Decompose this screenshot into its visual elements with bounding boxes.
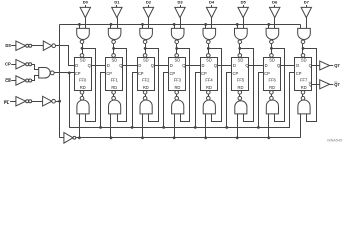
wire Q4 to D5: [217, 65, 232, 67]
wire SD branch around FF2: [146, 49, 159, 122]
wire load bus to reset NAND input: [300, 114, 302, 138]
svg-text:MNA549: MNA549: [327, 138, 342, 142]
NAND reset gate stage 7: [298, 100, 310, 114]
svg-text:FF2: FF2: [142, 78, 150, 83]
svg-text:RD: RD: [301, 85, 307, 90]
buffer D2 input (triangle): [143, 7, 153, 17]
wire PL riser vertical: [59, 24, 61, 137]
NAND reset gate stage 6 (bubble): [270, 96, 274, 100]
node top bus stage 3: [173, 23, 176, 26]
wire Q7 to output buffer: [312, 65, 320, 67]
wire load bus to set NAND input: [79, 24, 81, 28]
wire RD to reset NAND: [239, 94, 241, 96]
svg-text:CP: CP: [233, 71, 239, 76]
SD bubble FF1: [112, 54, 116, 58]
svg-text:SD: SD: [143, 58, 149, 63]
svg-text:RD: RD: [143, 85, 149, 90]
flip-flop FF5: [232, 58, 249, 91]
svg-text:CP: CP: [264, 71, 270, 76]
svg-text:CP: CP: [106, 71, 112, 76]
node load bus stage 3: [173, 136, 176, 139]
inverter CE: [16, 76, 26, 85]
wire Q3 to D4: [186, 65, 201, 67]
inverter PL bottom: [64, 133, 73, 144]
node top bus stage 6: [267, 23, 270, 26]
node SD stage 4: [207, 47, 210, 50]
NAND set gate stage 5: [235, 28, 248, 39]
wire RD to reset NAND: [271, 94, 273, 96]
svg-text:Q: Q: [309, 63, 312, 68]
flip-flop FF1: [106, 58, 123, 91]
wire D2 tick: [148, 5, 150, 7]
SD bubble FF3: [175, 54, 179, 58]
wire load bus to set NAND input: [300, 24, 302, 28]
node SD stage 7: [302, 47, 305, 50]
wire D6 tick: [274, 5, 276, 7]
wire Q2 to D3: [154, 65, 169, 67]
svg-text:FF7: FF7: [300, 78, 308, 83]
svg-text:RD: RD: [269, 85, 275, 90]
NAND reset gate stage 2 (bubble): [143, 96, 147, 100]
wire DS to inverter: [11, 45, 16, 47]
svg-text:SD: SD: [238, 58, 244, 63]
buffer D0 input (triangle): [80, 7, 90, 17]
wire SD branch around FF1: [114, 49, 127, 122]
NAND reset gate stage 5 (bubble): [238, 96, 242, 100]
svg-text:SD: SD: [111, 58, 117, 63]
wire CE to inverter: [11, 80, 16, 82]
RD bubble FF1: [112, 91, 116, 95]
wire CP riser stage 4: [196, 73, 201, 128]
buffer Q7bar output: [320, 80, 330, 89]
NAND reset gate stage 3 (bubble): [175, 96, 179, 100]
inverter CP: [16, 60, 26, 69]
wire D5 buffer to set NAND: [243, 18, 245, 29]
node load bus stage 1: [110, 136, 113, 139]
wire load bus to set NAND input: [205, 24, 207, 28]
top parallel-load bus: [60, 24, 301, 26]
wire RD to reset NAND: [208, 94, 210, 96]
wire D1 tick: [116, 5, 118, 7]
svg-text:D: D: [296, 63, 299, 68]
buffer D1 input (triangle): [112, 7, 122, 17]
wire clock to FF0 CP: [54, 72, 74, 74]
wire SD branch around FF6: [272, 49, 285, 122]
inverter PL second: [43, 96, 52, 106]
svg-text:CP: CP: [169, 71, 175, 76]
wire Q6 to D7: [280, 65, 295, 67]
wire D4 buffer to set NAND: [211, 18, 213, 29]
clock NAND gate: [39, 68, 51, 79]
NAND reset gate stage 2: [140, 100, 152, 114]
wire CP to inverter: [11, 64, 16, 66]
svg-text:FF0: FF0: [79, 78, 87, 83]
svg-text:Q: Q: [214, 63, 217, 68]
inverter DS second: [43, 41, 52, 50]
SD bubble FF5: [238, 54, 242, 58]
RD bubble FF2: [143, 91, 147, 95]
wire SD line stage 0: [82, 44, 84, 54]
svg-text:CP: CP: [5, 62, 11, 67]
wire load bus to reset NAND input: [268, 114, 270, 138]
wire SD branch around FF5: [240, 49, 254, 122]
SD bubble FF6: [270, 54, 274, 58]
flip-flop FF7: [295, 58, 312, 91]
wire load bus to set NAND input: [142, 24, 144, 28]
svg-text:D7: D7: [304, 0, 310, 5]
svg-text:Q: Q: [245, 63, 248, 68]
NAND set gate stage 3: [171, 28, 184, 39]
flip-flop FF3: [169, 58, 186, 91]
svg-text:Q7: Q7: [334, 82, 340, 87]
wire SD branch around FF4: [209, 49, 222, 122]
RD bubble FF7: [301, 91, 305, 95]
svg-text:Q: Q: [151, 63, 154, 68]
node top bus stage 1: [110, 23, 113, 26]
wire Q1 to D2: [123, 65, 138, 67]
wire D3 buffer to set NAND: [180, 18, 182, 29]
svg-text:FF5: FF5: [237, 78, 245, 83]
svg-text:FF3: FF3: [174, 78, 182, 83]
NAND reset gate stage 4: [203, 100, 215, 114]
flip-flop FF0: [75, 58, 92, 91]
load bus: [76, 137, 301, 139]
svg-text:Q: Q: [309, 82, 312, 87]
wire load bus to set NAND input: [268, 24, 270, 28]
svg-text:RD: RD: [111, 85, 117, 90]
buffer D3 input (triangle): [175, 7, 185, 17]
wire Q0 to D1: [91, 65, 106, 67]
wire riser to bottom inverter: [60, 137, 64, 139]
svg-text:D5: D5: [241, 0, 247, 5]
wire load bus to set NAND input: [174, 24, 176, 28]
wire D4 tick: [211, 5, 213, 7]
svg-text:RD: RD: [174, 85, 180, 90]
svg-text:D6: D6: [272, 0, 278, 5]
svg-text:PL: PL: [4, 100, 10, 105]
NAND set gate stage 1: [108, 28, 121, 39]
buffer D6 input (triangle): [270, 7, 280, 17]
svg-text:D: D: [170, 63, 173, 68]
NAND set gate stage 2: [140, 28, 153, 39]
node CP internal: [68, 72, 71, 75]
NAND reset gate stage 1 (bubble): [112, 96, 116, 100]
node top bus stage 2: [141, 23, 144, 26]
wire CP riser stage 7: [290, 73, 295, 128]
wire D7 tick: [306, 5, 308, 7]
svg-text:SD: SD: [206, 58, 212, 63]
wire load bus to reset NAND input: [205, 114, 207, 138]
wire CP riser stage 3: [164, 73, 169, 128]
svg-text:CE: CE: [5, 78, 11, 83]
wire load bus to reset NAND input: [237, 114, 239, 138]
node CP bus stage 2: [131, 126, 134, 129]
NAND reset gate stage 4 (bubble): [207, 96, 211, 100]
node SD stage 6: [270, 47, 273, 50]
wire load bus to reset NAND input: [110, 114, 112, 138]
node CP bus stage 3: [162, 126, 165, 129]
NAND reset gate stage 0: [77, 100, 89, 114]
RD bubble FF5: [238, 91, 242, 95]
wire D3 tick: [180, 5, 182, 7]
svg-text:D4: D4: [209, 0, 215, 5]
wire SD branch around FF0: [83, 49, 96, 122]
node SD stage 3: [175, 47, 178, 50]
wire SD line stage 5: [239, 44, 241, 54]
wire SD line stage 1: [113, 44, 115, 54]
wire D5 tick: [243, 5, 245, 7]
NAND reset gate stage 5: [235, 101, 247, 114]
wire load bus to reset NAND input: [79, 114, 81, 138]
wire SD line stage 4: [208, 44, 210, 54]
svg-text:CP: CP: [296, 71, 302, 76]
CP bus: [69, 127, 290, 129]
wire PL to inverter: [10, 101, 16, 103]
wire RD to reset NAND: [176, 94, 178, 96]
NAND set gate stage 7: [298, 28, 311, 39]
SD bubble FF7: [301, 54, 305, 58]
buffer D5 input (triangle): [238, 7, 248, 17]
wire CP inverter to clock NAND: [32, 65, 39, 70]
wire SD branch around FF7: [303, 49, 317, 122]
svg-text:Q: Q: [88, 63, 91, 68]
node top bus stage 4: [204, 23, 207, 26]
wire SD branch around FF3: [177, 49, 190, 122]
svg-text:RD: RD: [206, 85, 212, 90]
wire CP riser down to CP bus: [69, 73, 71, 128]
wire D2 buffer to set NAND: [148, 18, 150, 29]
wire RD to reset NAND: [145, 94, 147, 96]
RD bubble FF0: [80, 91, 84, 95]
svg-text:D: D: [75, 63, 78, 68]
wire PL node to riser: [56, 101, 60, 103]
svg-text:D: D: [265, 63, 268, 68]
node SD stage 2: [144, 47, 147, 50]
wire D0 buffer to set NAND: [85, 18, 87, 29]
RD bubble FF3: [175, 91, 179, 95]
flip-flop FF4: [201, 58, 218, 91]
wire CP riser stage 5: [227, 73, 232, 128]
svg-text:SD: SD: [301, 58, 307, 63]
wire RD to reset NAND: [113, 94, 115, 96]
wire load bus to set NAND input: [110, 24, 112, 28]
svg-text:FF6: FF6: [268, 78, 276, 83]
wire Q7bar out: [330, 84, 334, 86]
wire D1 buffer to set NAND: [117, 18, 119, 29]
wire load bus to set NAND input: [237, 24, 239, 28]
wire D0 tick: [85, 5, 87, 7]
wire D7 buffer to set NAND: [306, 18, 308, 29]
wire SD line stage 2: [145, 44, 147, 54]
svg-text:CP: CP: [201, 71, 207, 76]
NAND reset gate stage 1: [109, 100, 121, 114]
wire SD line stage 6: [271, 44, 273, 54]
node load bus stage 4: [204, 136, 207, 139]
NAND reset gate stage 6: [266, 100, 278, 114]
svg-text:SD: SD: [269, 58, 275, 63]
inverter PL first: [16, 97, 26, 106]
svg-text:CP: CP: [75, 71, 81, 76]
SD bubble FF4: [207, 54, 211, 58]
node top bus stage 5: [236, 23, 239, 26]
wire load bus to reset NAND input: [142, 114, 144, 138]
wire Q5 to D6: [249, 65, 264, 67]
svg-text:D: D: [202, 63, 205, 68]
wire D6 buffer to set NAND: [274, 18, 276, 29]
flip-flop FF2: [138, 58, 155, 91]
RD bubble FF6: [270, 91, 274, 95]
node load bus stage 5: [236, 136, 239, 139]
wire DS to FF0 D input: [56, 46, 75, 66]
wire RD to reset NAND: [302, 94, 304, 96]
wire CP riser stage 1: [101, 73, 106, 128]
svg-text:D3: D3: [177, 0, 183, 5]
svg-text:D2: D2: [146, 0, 152, 5]
SD bubble FF2: [143, 54, 147, 58]
wire Q7bar to output buffer: [312, 84, 320, 86]
flip-flop FF6: [264, 58, 281, 91]
buffer D7 input (triangle): [301, 7, 311, 17]
RD bubble FF4: [207, 91, 211, 95]
node top bus stage 0: [78, 23, 81, 26]
wire SD line stage 3: [176, 44, 178, 54]
buffer Q7 output: [320, 61, 330, 70]
svg-text:Q7: Q7: [334, 63, 340, 68]
NAND set gate stage 0: [77, 28, 90, 39]
wire SD line stage 7: [302, 44, 304, 54]
node PL riser: [58, 100, 61, 103]
svg-text:RD: RD: [238, 85, 244, 90]
NAND reset gate stage 0 (bubble): [80, 96, 84, 100]
NAND reset gate stage 3: [172, 100, 184, 114]
wire PL inverters: [32, 101, 43, 103]
node CP bus stage 5: [225, 126, 228, 129]
node load bus stage 0: [78, 136, 81, 139]
svg-text:FF1: FF1: [111, 78, 119, 83]
node CP bus stage 6: [257, 126, 260, 129]
node SD stage 0: [81, 47, 84, 50]
wire load bus to reset NAND input: [174, 114, 176, 138]
svg-text:SD: SD: [175, 58, 181, 63]
svg-text:D0: D0: [83, 0, 89, 5]
svg-text:D: D: [138, 63, 141, 68]
wire CE inverter to clock NAND: [32, 76, 39, 81]
svg-text:DS: DS: [5, 43, 11, 48]
wire CP riser stage 2: [133, 73, 138, 128]
node CP bus stage 1: [99, 126, 102, 129]
node SD stage 1: [112, 47, 115, 50]
node load bus stage 6: [267, 136, 270, 139]
wire RD to reset NAND: [82, 94, 84, 96]
svg-text:D: D: [233, 63, 236, 68]
wire CP riser stage 6: [259, 73, 264, 128]
node SD stage 5: [238, 47, 241, 50]
svg-text:RD: RD: [80, 85, 86, 90]
NAND reset gate stage 7 (bubble): [301, 96, 305, 100]
svg-text:CP: CP: [138, 71, 144, 76]
NAND set gate stage 4: [203, 28, 216, 39]
node load bus stage 2: [141, 136, 144, 139]
SD bubble FF0: [80, 54, 84, 58]
svg-text:D1: D1: [114, 0, 120, 5]
svg-text:Q: Q: [277, 63, 280, 68]
inverter DS first: [16, 41, 26, 50]
svg-text:D: D: [107, 63, 110, 68]
wire DS inverter to second: [32, 45, 44, 47]
svg-text:FF4: FF4: [205, 78, 213, 83]
buffer D4 input (triangle): [206, 7, 216, 17]
svg-text:SD: SD: [80, 58, 86, 63]
svg-text:Q: Q: [182, 63, 185, 68]
node CP bus stage 4: [194, 126, 197, 129]
NAND set gate stage 6: [266, 28, 279, 39]
svg-text:Q: Q: [119, 63, 122, 68]
wire Q7 out: [330, 65, 334, 67]
